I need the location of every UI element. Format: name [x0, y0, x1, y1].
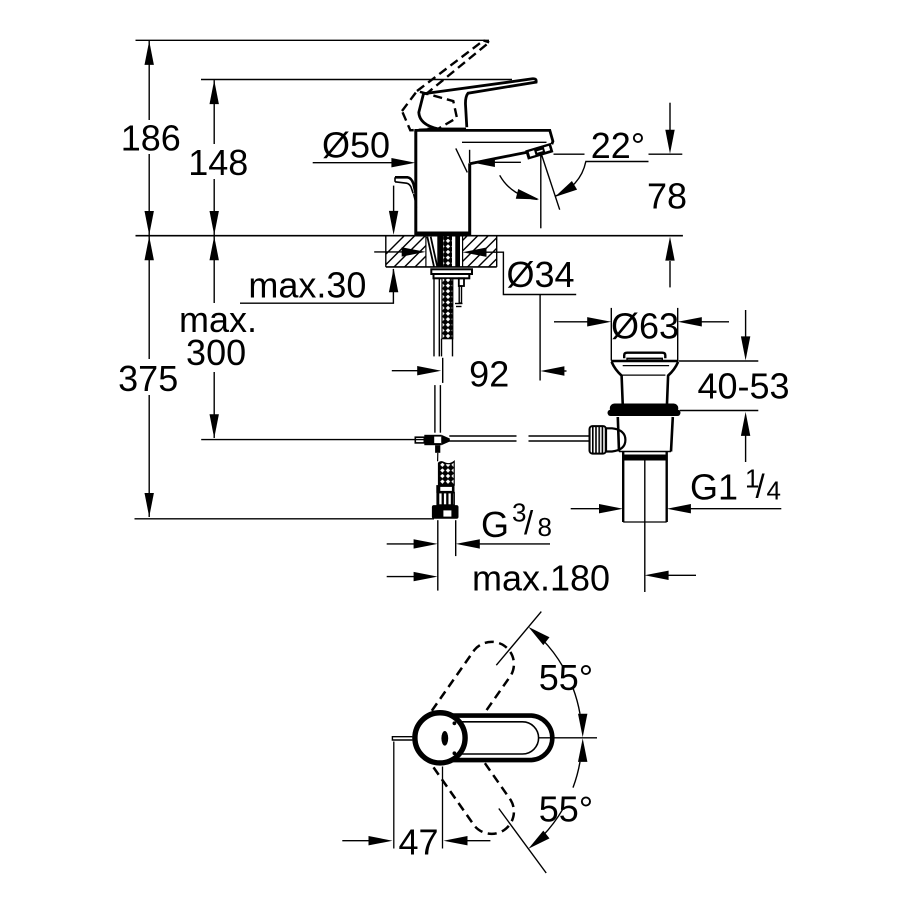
tailpipe sides	[622, 452, 624, 523]
svg-text:/: /	[756, 468, 766, 505]
drain flange top	[611, 360, 678, 362]
svg-text:Ø34: Ø34	[506, 254, 574, 295]
arrow max180 left	[414, 572, 438, 581]
supply hose braided upper	[442, 278, 453, 338]
pull rod knob outer	[395, 177, 416, 194]
arrow 375 top	[145, 236, 154, 260]
pull rod knob fairing	[414, 194, 417, 208]
shank threaded texture	[443, 236, 452, 266]
lever logo blob	[441, 731, 448, 746]
arrow max30 upper	[389, 211, 398, 235]
22 right arc arrowhead	[555, 181, 577, 197]
left tab	[392, 737, 412, 740]
arrow Ø34 left	[402, 247, 426, 256]
faucet body left edge	[414, 130, 417, 235]
svg-text:92: 92	[469, 354, 509, 395]
water stream line	[541, 153, 560, 210]
drain flange right side	[667, 362, 678, 404]
Ø34 left arrow line	[374, 251, 402, 253]
drain body/tail joint	[619, 451, 671, 453]
level line 186 top	[136, 39, 490, 41]
faucet body right edge	[468, 163, 471, 235]
mounting nut body	[434, 274, 470, 278]
top view pivot ring	[415, 713, 465, 763]
spout underside curve	[470, 152, 527, 164]
svg-text:G: G	[481, 504, 509, 545]
svg-text:G1: G1	[690, 466, 738, 507]
drain cap dome	[624, 353, 665, 359]
47 ext line right	[442, 767, 444, 849]
55 deg upper boundary line	[496, 612, 541, 666]
arrow G38 right	[456, 539, 480, 548]
dashed lever upper position	[412, 633, 523, 765]
22deg leader segment A	[491, 161, 521, 163]
handle base black band	[428, 128, 467, 132]
drain neck line 2	[622, 374, 666, 376]
svg-text:300: 300	[186, 332, 246, 373]
Ø50 leader	[313, 162, 395, 164]
counter right edge	[496, 236, 498, 267]
counter hatching	[372, 234, 522, 268]
svg-text:22°: 22°	[591, 125, 645, 166]
linkage main block	[424, 435, 441, 445]
svg-text:4: 4	[767, 475, 781, 505]
drain knob knurled	[590, 426, 607, 454]
22 left arc arrowhead	[516, 189, 540, 199]
body base plate	[416, 232, 470, 236]
arrow 92 right	[540, 366, 564, 375]
22deg arc left	[500, 175, 538, 199]
55 deg lower arc seg1	[542, 809, 563, 837]
92 dim right line	[564, 370, 567, 372]
drain body below seal	[618, 417, 673, 452]
arrow Ø63 right	[678, 317, 702, 326]
pull rod knob inner	[395, 182, 413, 194]
22deg leader segment B	[585, 161, 648, 163]
arrow 186 top	[145, 41, 154, 65]
arrow 92 left	[417, 366, 441, 375]
arrow 186 bottom	[145, 211, 154, 235]
counter bottom line	[386, 266, 497, 268]
arrow G1 right	[667, 504, 691, 513]
22deg arc right	[555, 162, 586, 197]
40-53 dim upper	[745, 310, 747, 337]
92 dim left line	[392, 370, 418, 372]
dashed lever tip	[484, 41, 490, 43]
svg-text:Ø50: Ø50	[322, 125, 390, 166]
dashed lever line A	[417, 41, 484, 92]
horizontal pull rod right part	[529, 435, 590, 437]
dashed handle base pentagon	[402, 91, 457, 130]
svg-text:8: 8	[538, 512, 552, 542]
hole right edge	[462, 236, 464, 267]
arrow 78 lower	[665, 237, 674, 261]
arrow max30 lower	[389, 268, 398, 292]
top view lever inner line	[443, 722, 539, 754]
hose ribbed section	[437, 493, 454, 506]
78 ext line top (left of 22 deg text)	[554, 153, 585, 155]
drain centerline	[644, 455, 646, 592]
counter top line	[136, 235, 683, 237]
arrow max300 top	[210, 236, 219, 260]
linkage-to-hose thin line	[437, 453, 439, 462]
drain o-ring seal	[610, 404, 679, 413]
shank left bar	[437, 236, 443, 266]
bowtie arrow upper	[578, 714, 587, 738]
G3/8 ext lines	[437, 520, 439, 590]
linkage right wedge	[441, 435, 450, 445]
svg-text:/: /	[524, 504, 534, 541]
V mark vertical tick	[469, 150, 471, 163]
drain knob connector	[606, 428, 625, 451]
55 deg upper arc seg1	[542, 639, 563, 667]
78 dim line lower	[669, 261, 671, 287]
hose ferrule	[436, 485, 454, 493]
78 dim line upper	[669, 103, 671, 131]
92 right ext line from O34 box	[539, 295, 541, 381]
spout cap inner line	[462, 141, 547, 143]
tailpipe end	[623, 521, 667, 523]
G3/8 arrow lines	[387, 543, 414, 545]
arrow 375 bottom	[145, 493, 154, 517]
arrow G1 left	[599, 504, 623, 513]
svg-text:55°: 55°	[539, 657, 593, 698]
svg-text:47: 47	[398, 822, 438, 863]
drain neck line 1	[623, 365, 669, 367]
47 arrowhead right	[444, 836, 468, 845]
55 deg lower arc seg2	[573, 762, 580, 788]
arrow 78 upper	[665, 130, 674, 154]
svg-text:375: 375	[118, 358, 178, 399]
40-53 lower ref line	[680, 410, 759, 412]
pull rod lower	[434, 385, 436, 433]
55 lower arc arrowhead	[528, 831, 549, 849]
Ø63 arrow lines	[554, 321, 588, 323]
shank right bar	[455, 236, 460, 266]
arrow G38 left	[414, 539, 438, 548]
arrow 40-53 lower	[741, 412, 750, 436]
linkage lower stub	[435, 445, 440, 453]
top view lever outline	[437, 716, 552, 761]
dashed lever lower position	[412, 711, 523, 843]
svg-text:Ø63: Ø63	[611, 306, 679, 347]
arrow 40-53 upper	[741, 336, 750, 360]
svg-text:max.30: max.30	[248, 264, 366, 305]
drain flange left side	[612, 362, 623, 404]
dim line 148/max300	[213, 80, 215, 144]
stream vertical ref line	[540, 153, 542, 229]
arrow max300 bottom	[210, 414, 219, 438]
55 deg upper arc seg2	[573, 688, 580, 714]
pull rod knob cap	[394, 177, 396, 182]
svg-text:40-53: 40-53	[697, 366, 789, 407]
svg-text:148: 148	[188, 142, 248, 183]
dim line 186/375	[148, 41, 150, 120]
supply hose plain section	[441, 339, 443, 357]
max180 arrow lines	[387, 576, 414, 578]
centerline right	[538, 737, 597, 739]
G1 1/4 arrow lines	[571, 508, 600, 510]
counter left edge	[385, 236, 387, 267]
tailpipe groove band	[623, 455, 667, 461]
G3/8 nut	[432, 505, 459, 519]
arrow 148 bottom	[210, 211, 219, 235]
Ø34 right arrow line + label connector	[486, 252, 576, 294]
level line max.300	[201, 439, 424, 441]
second hose cap	[455, 303, 463, 305]
drain cap lip	[627, 358, 662, 360]
40-53 upper ref line	[679, 360, 759, 362]
arrow Ø34 right	[463, 248, 487, 257]
handle lever side view	[419, 79, 536, 129]
mounting nut flange	[431, 269, 472, 274]
40-53 dim lower	[745, 436, 747, 463]
Ø63 ext bars	[610, 308, 612, 361]
lower braided hose	[439, 461, 455, 485]
92 ext line	[442, 358, 444, 383]
V mark diagonal	[456, 148, 468, 172]
level line 148 top	[201, 79, 512, 81]
78 ext line top (right of 22 deg text)	[649, 153, 683, 155]
arrow max180 right	[645, 571, 669, 580]
lever dots	[453, 721, 457, 725]
arrow 148 top	[210, 80, 219, 104]
arrow Ø63 left	[587, 317, 611, 326]
svg-text:186: 186	[121, 118, 181, 159]
pull rod upper	[433, 278, 435, 356]
bowtie arrow lower	[578, 738, 587, 762]
second hose tab	[459, 278, 464, 286]
arrow 22deg leader	[471, 158, 495, 167]
clamp wedge lines	[427, 237, 434, 267]
faucet top + spout corner	[414, 130, 553, 144]
svg-text:55°: 55°	[539, 789, 593, 830]
47 ext line left	[393, 742, 395, 849]
svg-text:78: 78	[647, 175, 687, 216]
horizontal pull rod left part	[449, 435, 516, 437]
dashed lever line B	[426, 42, 490, 94]
arrow Ø50	[391, 158, 415, 167]
aerator	[525, 143, 553, 160]
47 arrowhead left	[369, 836, 393, 845]
level line 375	[135, 518, 435, 520]
55 upper arc arrowhead	[528, 627, 549, 645]
47 arrow lines	[342, 840, 369, 842]
second hose tube	[459, 286, 461, 303]
max30 label underline + riser	[240, 269, 393, 303]
max30 upper arrow stem	[393, 186, 395, 212]
55 deg lower boundary line	[499, 809, 546, 874]
linkage left small block	[415, 437, 424, 443]
hole left edge	[425, 236, 427, 267]
svg-text:max.180: max.180	[472, 558, 610, 599]
